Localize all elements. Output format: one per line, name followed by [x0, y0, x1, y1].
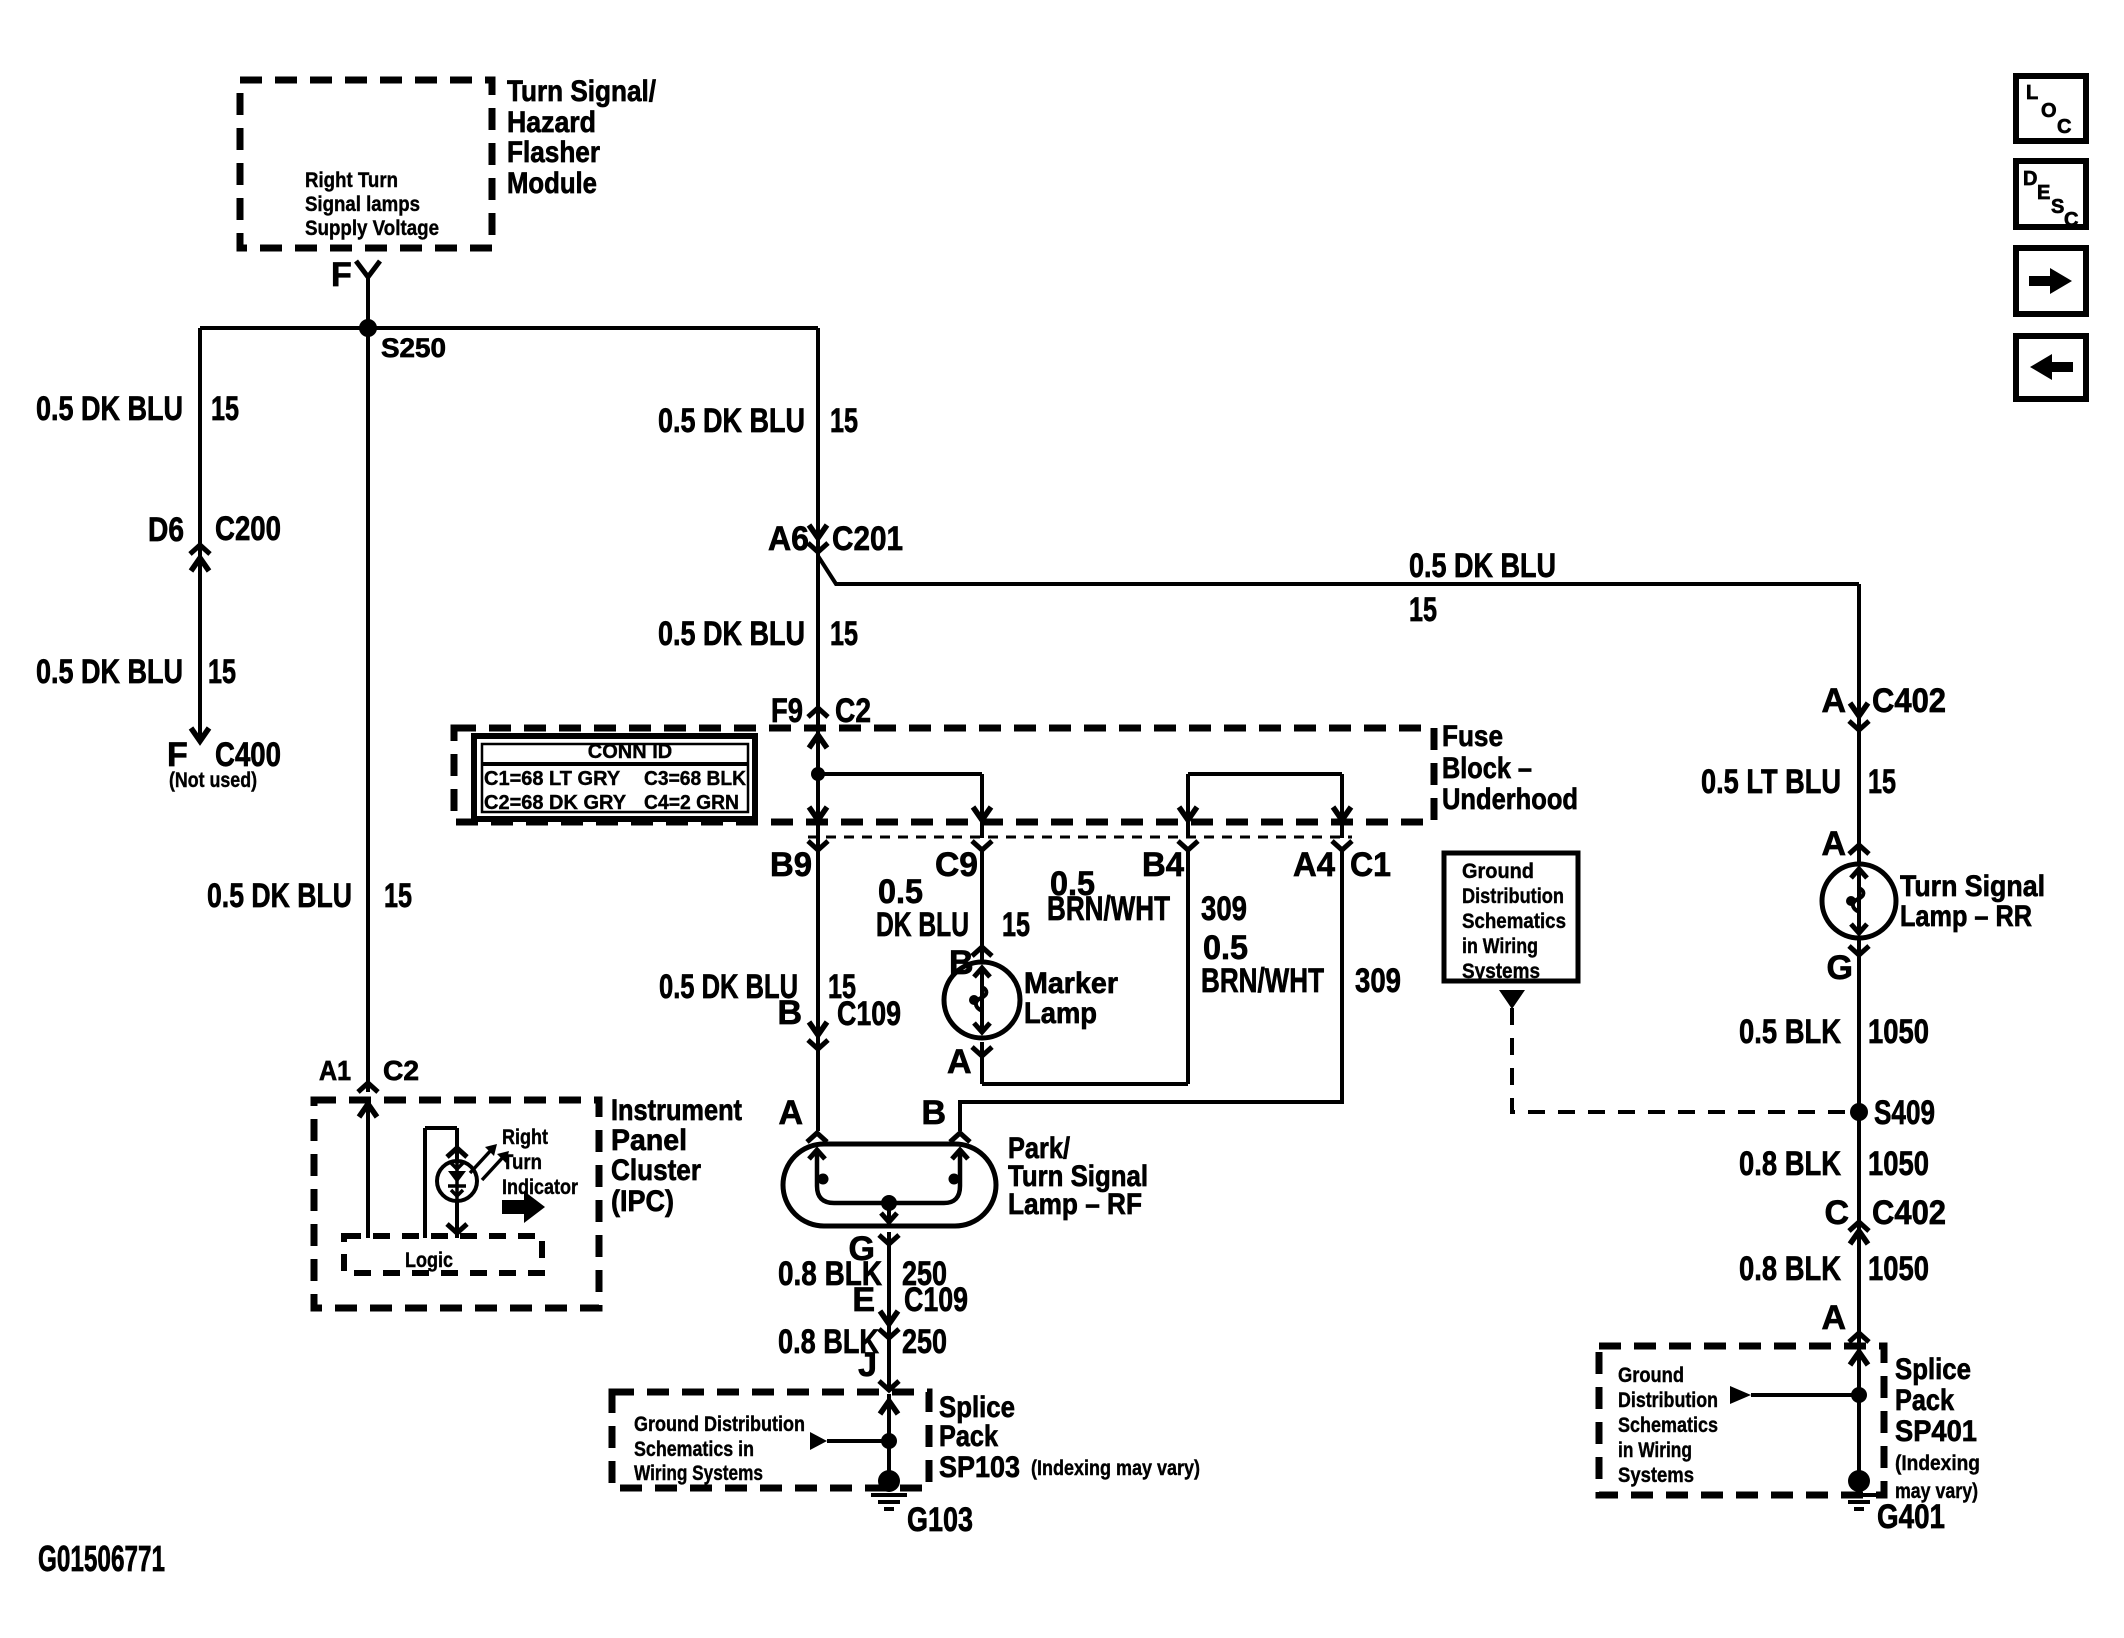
svg-text:0.5 DK BLU: 0.5 DK BLU	[36, 390, 183, 428]
svg-text:G01506771: G01506771	[38, 1538, 165, 1579]
svg-text:15: 15	[1002, 906, 1030, 944]
svg-text:C1=68 LT GRY: C1=68 LT GRY	[484, 768, 621, 790]
svg-text:0.5 DK BLU: 0.5 DK BLU	[36, 653, 183, 691]
svg-text:C9: C9	[935, 846, 978, 884]
svg-text:Instrument: Instrument	[611, 1094, 742, 1127]
svg-text:(Indexing: (Indexing	[1895, 1452, 1980, 1475]
svg-text:Turn Signal/: Turn Signal/	[507, 75, 657, 108]
svg-text:Block –: Block –	[1442, 752, 1532, 785]
svg-text:D6: D6	[148, 511, 184, 549]
svg-text:F9: F9	[771, 692, 803, 730]
svg-text:C2=68 DK GRY: C2=68 DK GRY	[484, 792, 627, 814]
svg-text:Right: Right	[502, 1126, 548, 1149]
svg-text:BRN/WHT: BRN/WHT	[1201, 962, 1324, 1000]
svg-text:Splice: Splice	[1895, 1353, 1971, 1386]
svg-text:15: 15	[1409, 591, 1437, 629]
svg-text:Fuse: Fuse	[1442, 720, 1503, 753]
svg-text:B: B	[777, 994, 802, 1032]
svg-text:B4: B4	[1142, 846, 1184, 884]
svg-text:15: 15	[1868, 763, 1896, 801]
svg-text:Right Turn: Right Turn	[305, 169, 398, 192]
svg-text:C402: C402	[1872, 1194, 1946, 1232]
svg-text:DK BLU: DK BLU	[876, 906, 969, 944]
svg-text:Turn: Turn	[502, 1151, 542, 1174]
svg-text:A: A	[1821, 682, 1846, 720]
svg-text:S250: S250	[381, 333, 446, 363]
svg-text:250: 250	[902, 1323, 947, 1361]
svg-text:S: S	[2051, 196, 2064, 218]
svg-text:Ground: Ground	[1462, 860, 1534, 883]
svg-text:C4=2 GRN: C4=2 GRN	[644, 792, 739, 814]
svg-text:(Indexing may vary): (Indexing may vary)	[1031, 1457, 1200, 1480]
svg-text:Schematics: Schematics	[1462, 910, 1566, 933]
svg-text:0.5 DK BLU: 0.5 DK BLU	[207, 877, 352, 915]
svg-text:Wiring Systems: Wiring Systems	[634, 1462, 763, 1485]
svg-text:C3=68 BLK: C3=68 BLK	[644, 768, 747, 790]
svg-text:Lamp – RF: Lamp – RF	[1008, 1188, 1142, 1221]
svg-text:Signal lamps: Signal lamps	[305, 193, 420, 216]
svg-text:O: O	[2041, 100, 2057, 122]
svg-text:1050: 1050	[1868, 1250, 1929, 1288]
svg-text:15: 15	[208, 653, 236, 691]
svg-text:Pack: Pack	[1895, 1384, 1954, 1417]
svg-text:A6: A6	[768, 520, 809, 558]
svg-text:(IPC): (IPC)	[611, 1185, 674, 1218]
svg-text:C201: C201	[832, 520, 903, 558]
svg-text:1050: 1050	[1868, 1145, 1929, 1183]
svg-text:Systems: Systems	[1462, 960, 1540, 983]
svg-text:B: B	[921, 1094, 946, 1132]
svg-text:Cluster: Cluster	[611, 1154, 701, 1187]
svg-text:15: 15	[830, 615, 858, 653]
svg-text:0.5 DK BLU: 0.5 DK BLU	[658, 402, 805, 440]
svg-text:Marker: Marker	[1024, 967, 1118, 1000]
svg-text:C2: C2	[383, 1055, 419, 1086]
svg-text:C: C	[2057, 116, 2071, 138]
svg-text:Pack: Pack	[939, 1420, 998, 1453]
svg-text:309: 309	[1201, 890, 1247, 928]
svg-text:F: F	[331, 256, 352, 294]
svg-text:SP401: SP401	[1895, 1415, 1977, 1448]
svg-text:Distribution: Distribution	[1618, 1389, 1718, 1412]
svg-text:C1: C1	[1350, 846, 1391, 884]
svg-text:B9: B9	[770, 846, 812, 884]
svg-text:0.8 BLK: 0.8 BLK	[1739, 1145, 1841, 1183]
svg-text:C: C	[1824, 1194, 1849, 1232]
svg-text:L: L	[2026, 82, 2038, 104]
svg-text:D: D	[2023, 168, 2037, 190]
svg-text:Panel: Panel	[611, 1124, 687, 1157]
svg-text:Turn Signal: Turn Signal	[1900, 870, 2045, 903]
svg-text:A1: A1	[319, 1055, 351, 1086]
svg-text:Indicator: Indicator	[502, 1176, 578, 1199]
svg-text:Underhood: Underhood	[1442, 783, 1578, 816]
svg-text:0.5 DK BLU: 0.5 DK BLU	[1409, 547, 1556, 585]
svg-text:C109: C109	[837, 995, 901, 1033]
svg-text:C109: C109	[904, 1281, 968, 1319]
svg-text:Ground: Ground	[1618, 1364, 1684, 1387]
svg-text:15: 15	[384, 877, 412, 915]
svg-text:0.8 BLK: 0.8 BLK	[1739, 1250, 1841, 1288]
svg-text:J: J	[858, 1346, 877, 1384]
svg-text:G: G	[1827, 949, 1853, 987]
svg-text:A4: A4	[1293, 846, 1335, 884]
svg-text:SP103: SP103	[939, 1451, 1020, 1484]
svg-text:0.5 BLK: 0.5 BLK	[1739, 1013, 1841, 1051]
svg-text:E: E	[2037, 182, 2050, 204]
svg-text:C: C	[2064, 209, 2078, 231]
svg-text:G103: G103	[907, 1501, 973, 1539]
svg-text:A: A	[778, 1094, 803, 1132]
svg-text:Ground Distribution: Ground Distribution	[634, 1413, 805, 1436]
svg-text:15: 15	[211, 390, 239, 428]
svg-text:C200: C200	[215, 510, 281, 548]
svg-text:BRN/WHT: BRN/WHT	[1047, 890, 1170, 928]
svg-text:(Not used): (Not used)	[169, 769, 257, 792]
svg-text:B: B	[949, 944, 974, 982]
svg-text:E: E	[852, 1281, 875, 1319]
svg-text:Flasher: Flasher	[507, 136, 600, 169]
svg-text:A: A	[1821, 825, 1846, 863]
svg-text:Logic: Logic	[405, 1249, 453, 1272]
svg-text:S409: S409	[1874, 1094, 1935, 1132]
svg-text:Module: Module	[507, 167, 597, 200]
svg-text:in Wiring: in Wiring	[1462, 935, 1538, 958]
svg-text:309: 309	[1355, 962, 1401, 1000]
svg-text:1050: 1050	[1868, 1013, 1929, 1051]
svg-text:Distribution: Distribution	[1462, 885, 1564, 908]
svg-text:C402: C402	[1872, 682, 1946, 720]
svg-text:A: A	[947, 1043, 972, 1081]
svg-text:Schematics in: Schematics in	[634, 1438, 754, 1461]
svg-text:Systems: Systems	[1618, 1464, 1694, 1487]
svg-text:A: A	[1821, 1299, 1846, 1337]
svg-text:Lamp: Lamp	[1024, 997, 1097, 1030]
svg-text:Hazard: Hazard	[507, 106, 596, 139]
svg-text:0.5 DK BLU: 0.5 DK BLU	[658, 615, 805, 653]
svg-text:C2: C2	[835, 692, 871, 730]
svg-text:0.5 LT BLU: 0.5 LT BLU	[1701, 763, 1841, 801]
svg-text:in Wiring: in Wiring	[1618, 1439, 1692, 1462]
svg-text:Supply Voltage: Supply Voltage	[305, 217, 439, 240]
svg-text:Schematics: Schematics	[1618, 1414, 1718, 1437]
svg-text:Lamp – RR: Lamp – RR	[1900, 900, 2032, 933]
svg-text:CONN ID: CONN ID	[588, 741, 672, 763]
svg-text:15: 15	[830, 402, 858, 440]
svg-text:G401: G401	[1877, 1498, 1945, 1536]
